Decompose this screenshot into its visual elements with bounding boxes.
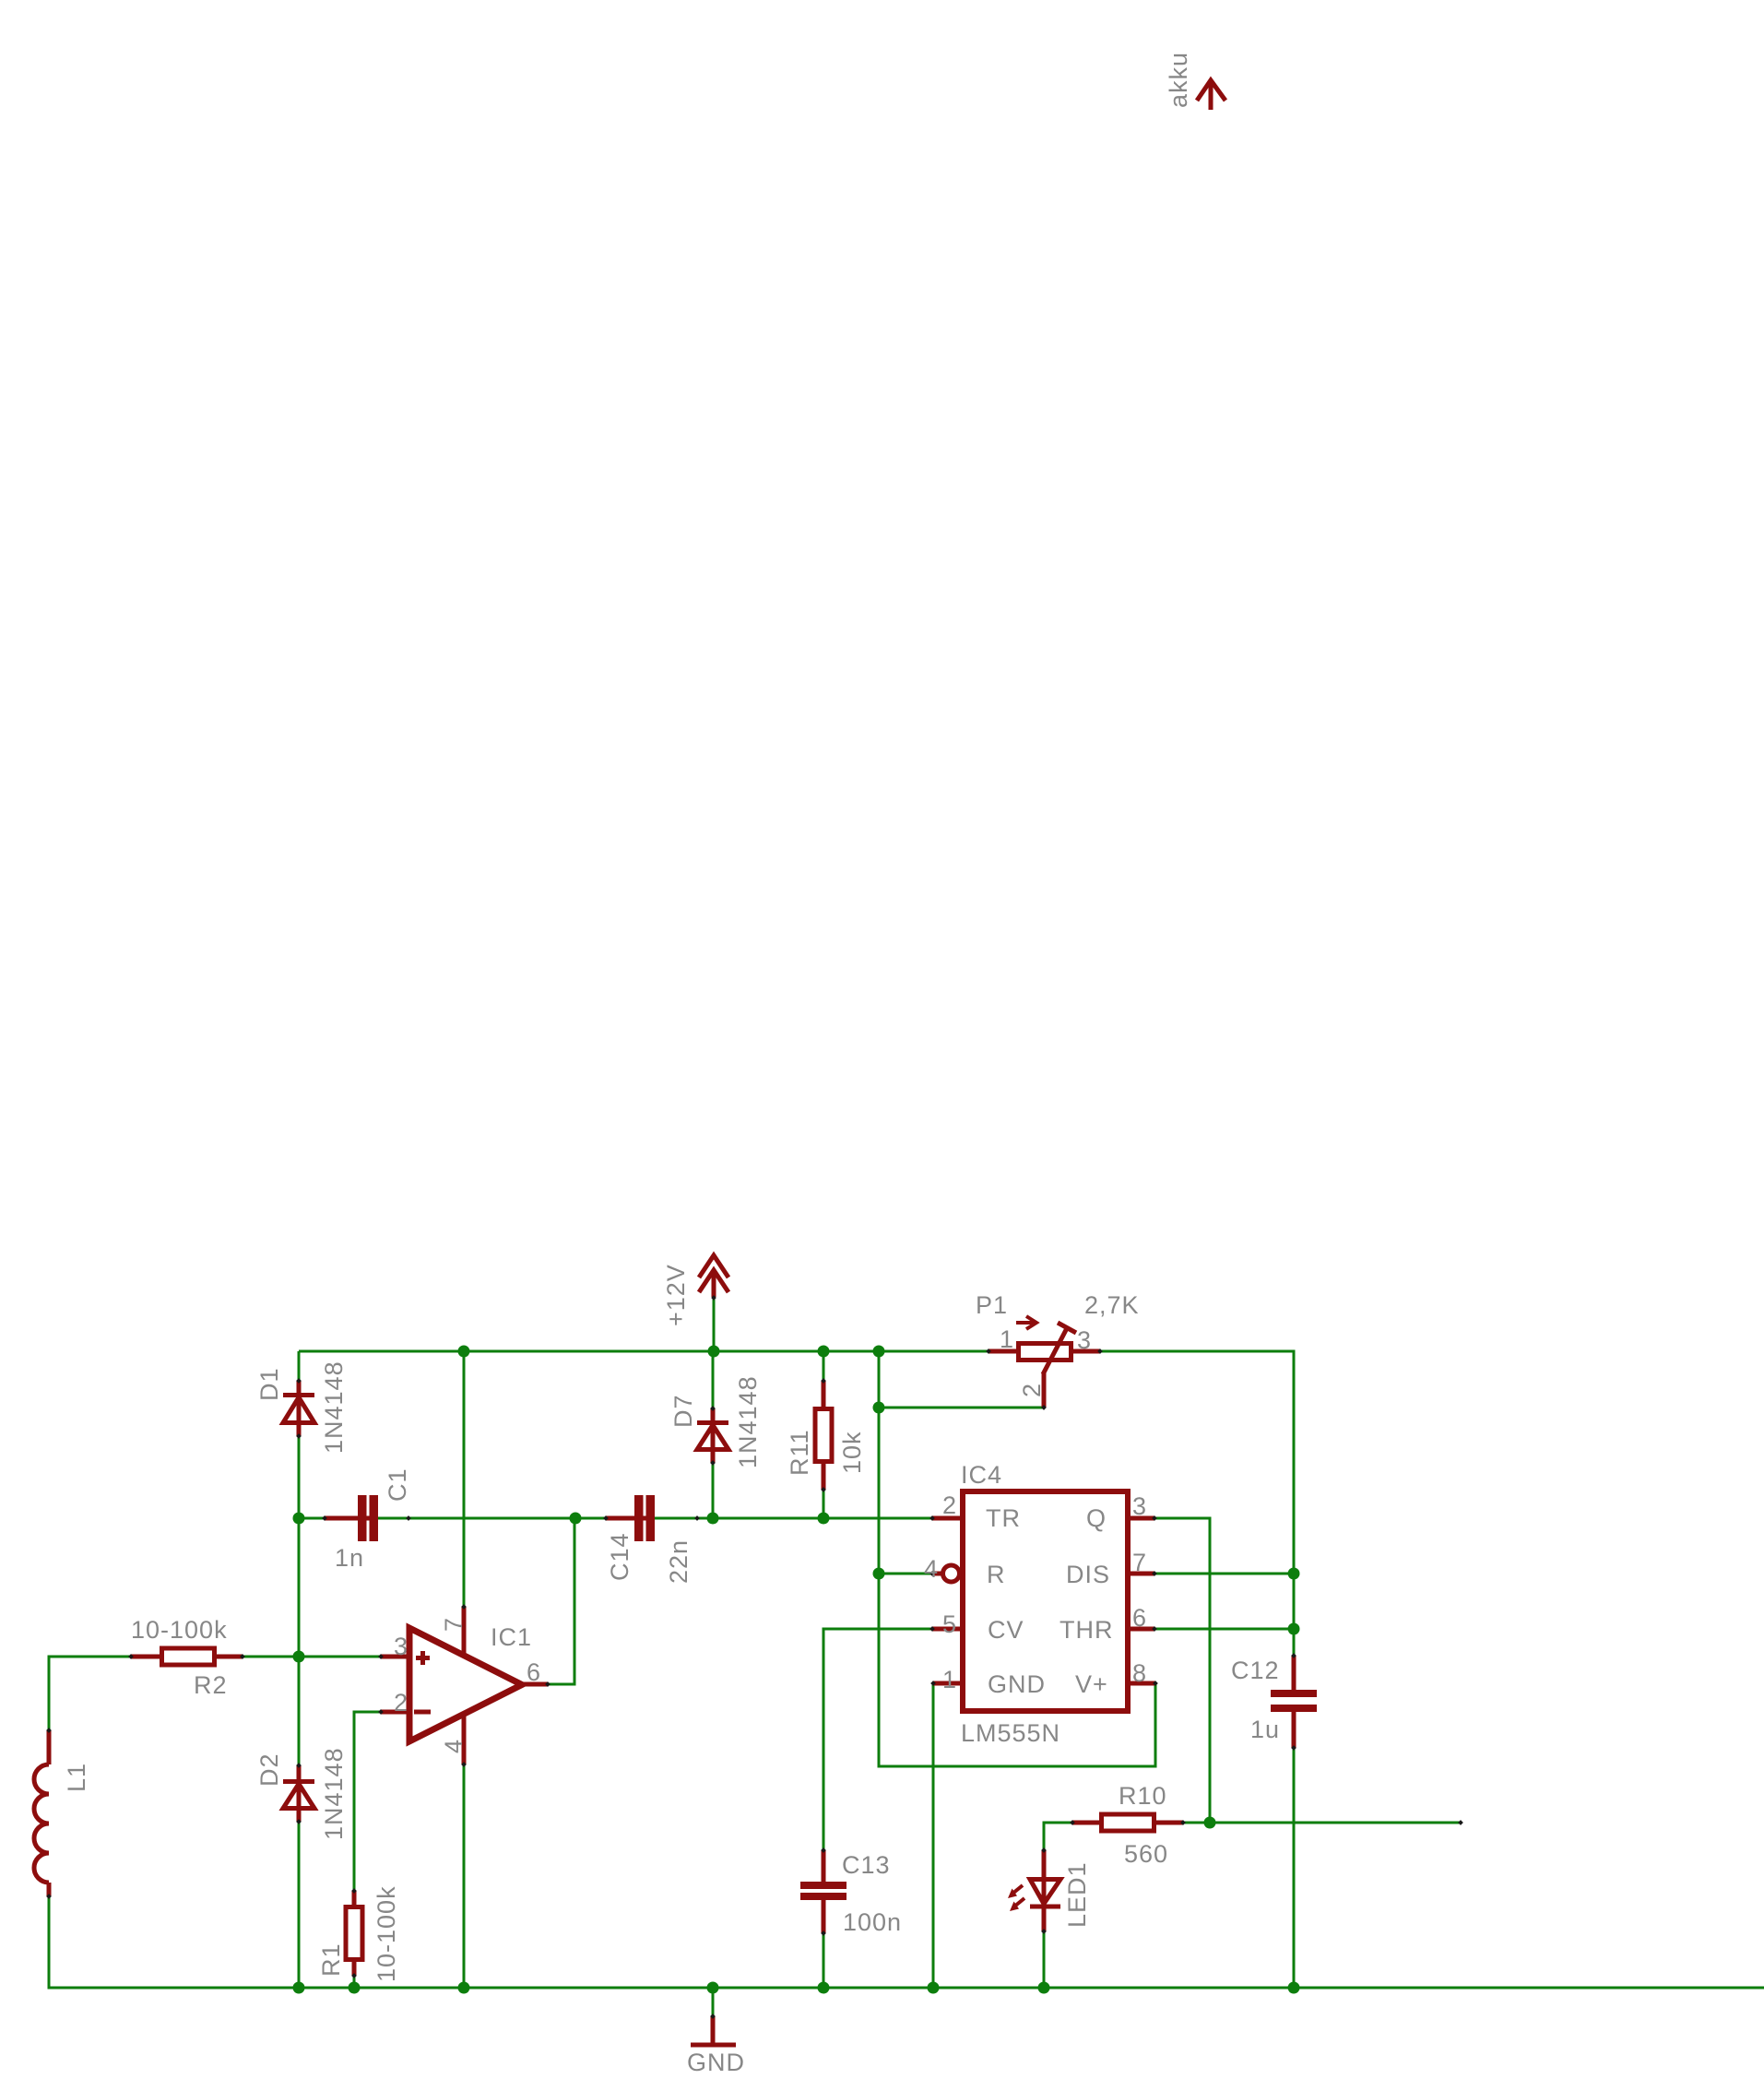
svg-text:D2: D2 (255, 1752, 283, 1787)
resistor R10 560 (1072, 1814, 1183, 1831)
junction GND bus / D2 (293, 1982, 305, 1994)
junction cap line / D7 (707, 1513, 719, 1525)
svg-text:100n: 100n (843, 1908, 902, 1936)
junction GND bus / op-amp pin4 (458, 1982, 470, 1994)
wire V+ column down around IC4 to pin 8 (879, 1351, 1155, 1766)
junction cap line / op-amp output (570, 1513, 582, 1525)
svg-text:10-100k: 10-100k (373, 1885, 400, 1982)
wire op-amp output feedback to cap node (522, 1518, 574, 1684)
wire DIS to C12 column (1154, 1573, 1294, 1575)
svg-text:+12V: +12V (662, 1264, 690, 1326)
resistor R11 10k (815, 1381, 832, 1490)
GND ground symbol (711, 2016, 716, 2045)
capacitor C14 22n (606, 1495, 655, 1541)
svg-text:10-100k: 10-100k (131, 1616, 228, 1644)
svg-text:R: R (987, 1561, 1006, 1588)
svg-text:1: 1 (942, 1666, 957, 1693)
wire C13 lower to GND bus (823, 1898, 825, 1988)
wire R11 column (823, 1351, 825, 1518)
svg-text:R10: R10 (1119, 1782, 1167, 1810)
svg-text:P1: P1 (976, 1291, 1008, 1319)
svg-text:8: 8 (1132, 1659, 1147, 1687)
wire D7 column top (712, 1351, 715, 1408)
IC U1 LM555N box IC4 (963, 1491, 1128, 1711)
junction top bus / V+ column (873, 1346, 885, 1358)
wire top +12V bus (299, 1350, 989, 1353)
diode D2 1N4148 (283, 1765, 314, 1822)
svg-text:7: 7 (440, 1617, 468, 1632)
svg-text:3: 3 (1132, 1492, 1147, 1520)
junction GND bus / LED1 (1038, 1982, 1050, 1994)
wire bottom GND bus with L1 corner (49, 1896, 1764, 1988)
wire top bus right segment to C12 column (1100, 1351, 1294, 1656)
wire C12 lower to GND bus (1293, 1710, 1296, 1988)
wire D1 column top (298, 1351, 301, 1381)
resistor R2 10-100k (131, 1648, 243, 1665)
diode D7 1N4148 (697, 1408, 728, 1463)
svg-text:1: 1 (1000, 1325, 1014, 1353)
svg-text:C12: C12 (1231, 1657, 1280, 1684)
svg-text:1u: 1u (1250, 1716, 1280, 1743)
junction GND bus / C13 (818, 1982, 830, 1994)
svg-text:TR: TR (986, 1504, 1021, 1532)
svg-text:GND: GND (687, 2049, 745, 2076)
op-amp IC1 pin stubs (381, 1655, 411, 1659)
junction GND bus / C12 (1288, 1982, 1300, 1994)
junction P1 pin2 / V+ column (873, 1402, 885, 1414)
svg-text:2,7K: 2,7K (1084, 1291, 1140, 1319)
wire op-amp pin7 column (463, 1351, 466, 1607)
svg-text:6: 6 (1132, 1604, 1147, 1632)
potentiometer P1 2,7K (989, 1316, 1100, 1408)
svg-text:4: 4 (924, 1555, 939, 1583)
junction R pin / V+ column (873, 1568, 885, 1580)
svg-text:LED1: LED1 (1063, 1861, 1091, 1928)
junction GND bus / GND symbol (707, 1982, 719, 1994)
junction top bus / op-amp pin7 (458, 1346, 470, 1358)
junction cap line / R11 (818, 1513, 830, 1525)
wire P1 pin2 to V+ column (879, 1407, 1044, 1409)
svg-text:C13: C13 (842, 1851, 891, 1879)
svg-text:R11: R11 (786, 1429, 813, 1476)
wire R2 input line and corner to L1 (49, 1657, 409, 1730)
svg-text:D1: D1 (255, 1367, 283, 1401)
IC4 reset pin inversion bubble (943, 1565, 960, 1582)
junction top bus / R11 (818, 1346, 830, 1358)
wire op-amp pin4 column (463, 1764, 466, 1988)
pin endpoint markers (46, 1295, 1463, 2019)
svg-text:GND: GND (988, 1670, 1046, 1698)
svg-text:2: 2 (394, 1689, 408, 1717)
svg-text:C1: C1 (384, 1467, 411, 1502)
junction DIS / C12 column (1288, 1568, 1300, 1580)
svg-text:1N4148: 1N4148 (320, 1360, 348, 1454)
wire R10 node to right (akku net) (1044, 1823, 1461, 1850)
svg-text:R2: R2 (194, 1671, 228, 1699)
diode D1 1N4148 (283, 1381, 314, 1436)
wire cap line C1 to C14 (376, 1517, 636, 1520)
svg-text:D7: D7 (669, 1394, 697, 1428)
LED LED1 (1042, 1850, 1047, 1931)
svg-text:THR: THR (1060, 1616, 1114, 1644)
svg-text:Q: Q (1086, 1504, 1107, 1532)
svg-text:akku: akku (1165, 52, 1192, 108)
svg-text:6: 6 (527, 1658, 541, 1686)
resistor R1 10-100k (346, 1891, 362, 1976)
wire Q output down to R10 node (1154, 1518, 1210, 1823)
wire D2 column bottom (298, 1822, 301, 1988)
junction R10 / Q column (1204, 1817, 1216, 1829)
svg-text:V+: V+ (1075, 1670, 1108, 1698)
wire D1/D2 column middle (298, 1436, 301, 1765)
svg-text:C14: C14 (606, 1532, 633, 1581)
svg-text:1N4148: 1N4148 (734, 1375, 762, 1468)
svg-text:L1: L1 (63, 1763, 90, 1792)
junction cap line / D1 column (293, 1513, 305, 1525)
svg-text:5: 5 (942, 1610, 957, 1638)
svg-text:LM555N: LM555N (961, 1719, 1060, 1747)
svg-text:DIS: DIS (1066, 1561, 1110, 1588)
wire reset pin R to V+ column (879, 1573, 932, 1575)
wire cap line left of C1 (299, 1517, 360, 1520)
wire op-amp minus input to R1 column (354, 1712, 409, 1988)
svg-text:2: 2 (942, 1491, 957, 1519)
svg-text:3: 3 (1077, 1326, 1092, 1354)
svg-text:10k: 10k (838, 1431, 866, 1474)
op-amp IC1 triangle (409, 1628, 522, 1741)
akku supply arrow (1197, 80, 1225, 101)
junction R2 line / D-column (293, 1651, 305, 1663)
svg-text:R1: R1 (317, 1942, 345, 1977)
junction top bus / +12V (708, 1346, 720, 1358)
svg-text:3: 3 (394, 1633, 408, 1660)
junction GND bus / IC4 pin1 (928, 1982, 940, 1994)
svg-text:IC1: IC1 (491, 1623, 532, 1651)
capacitor C12 1u (1271, 1656, 1317, 1748)
svg-text:1N4148: 1N4148 (320, 1747, 348, 1840)
IC4 pin stubs (932, 1516, 963, 1521)
wire IC4 GND pin1 down to GND bus (932, 1683, 935, 1988)
wire +12V symbol to top bus (713, 1297, 716, 1351)
wire GND symbol stub (712, 1988, 715, 2016)
junction GND bus / R1 (349, 1982, 361, 1994)
+12V supply symbol (699, 1255, 728, 1277)
wire CV pin to C13 upper (823, 1629, 932, 1883)
capacitor C1 1n (325, 1495, 378, 1541)
wire cap line C14 to TR pin (653, 1517, 932, 1520)
junction THR / C12 column (1288, 1623, 1300, 1635)
capacitor C13 100n (800, 1850, 846, 1933)
inductor L1 (47, 1730, 52, 1764)
svg-text:560: 560 (1124, 1840, 1168, 1868)
svg-text:CV: CV (988, 1616, 1024, 1644)
wire LED1 bottom to GND bus (1043, 1931, 1046, 1988)
svg-text:2: 2 (1018, 1383, 1046, 1397)
svg-text:22n: 22n (665, 1539, 693, 1584)
wire THR to C12 column (1154, 1628, 1294, 1631)
svg-text:4: 4 (440, 1739, 468, 1753)
wire D7 column bottom (712, 1463, 715, 1518)
svg-text:7: 7 (1132, 1549, 1147, 1576)
svg-text:1n: 1n (335, 1544, 364, 1572)
svg-text:IC4: IC4 (961, 1461, 1002, 1489)
